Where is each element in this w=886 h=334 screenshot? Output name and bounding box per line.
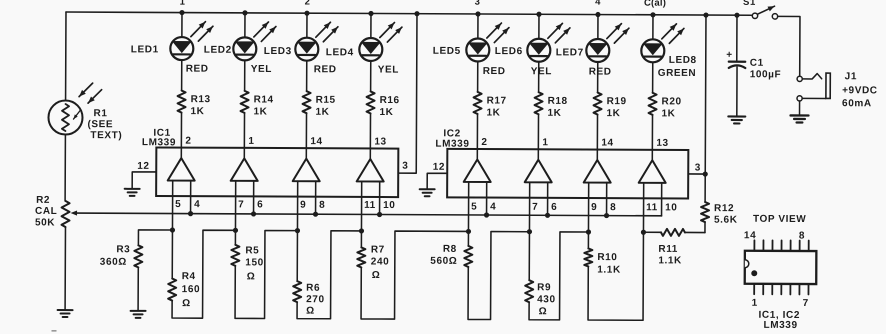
svg-text:14: 14	[310, 136, 322, 147]
LED 2 (YEL)	[204, 22, 276, 75]
svg-text:Ω: Ω	[306, 306, 315, 317]
svg-text:Ω: Ω	[372, 270, 381, 281]
svg-text:8: 8	[610, 202, 616, 213]
potentiometer R2	[35, 195, 70, 229]
svg-text:9: 9	[300, 200, 306, 211]
svg-text:R13: R13	[191, 94, 211, 105]
svg-text:RED: RED	[314, 64, 337, 75]
resistor R12 5.6K	[701, 174, 738, 233]
resistor R16 1K	[366, 61, 399, 118]
svg-text:+9VDC: +9VDC	[842, 85, 878, 96]
node 4	[595, 0, 601, 8]
svg-text:5: 5	[471, 201, 477, 212]
wire R18 to comparator pin 1	[538, 114, 548, 160]
wire R16 to comparator pin 13	[370, 113, 387, 159]
svg-text:4: 4	[194, 199, 200, 210]
svg-text:C1: C1	[750, 58, 764, 69]
resistor R17 1K	[473, 61, 506, 118]
svg-text:R10: R10	[597, 252, 617, 263]
svg-text:J1: J1	[845, 71, 857, 82]
svg-text:Ω: Ω	[182, 298, 191, 309]
svg-text:RED: RED	[186, 64, 209, 75]
svg-text:LED6: LED6	[495, 46, 523, 57]
svg-text:7: 7	[803, 298, 809, 309]
resistor R7 240ohm	[357, 231, 468, 320]
wire +V top rail	[66, 12, 752, 15]
svg-text:5.6K: 5.6K	[714, 215, 738, 226]
svg-text:GREEN: GREEN	[658, 68, 697, 79]
svg-text:R6: R6	[306, 283, 320, 294]
wire R1 to R2	[64, 135, 66, 201]
ground at IC1 pin 12	[125, 161, 157, 196]
svg-text:LED4: LED4	[326, 47, 354, 58]
wire R20 to comparator pin 13	[652, 115, 669, 161]
svg-text:150: 150	[245, 257, 264, 268]
svg-text:8: 8	[319, 200, 325, 211]
wire R19 to comparator pin 14	[597, 115, 614, 161]
svg-text:R4: R4	[182, 271, 196, 282]
resistor R9 430ohm	[525, 232, 588, 320]
comparator IC1 triangle c	[292, 159, 325, 231]
DIP-14 package top view LM339	[743, 214, 816, 331]
svg-text:13: 13	[656, 138, 668, 149]
svg-text:2: 2	[481, 137, 487, 148]
node 3	[475, 0, 481, 8]
svg-text:13: 13	[374, 136, 386, 147]
ground below R2	[58, 310, 73, 317]
svg-text:1.1K: 1.1K	[658, 255, 682, 266]
svg-text:1: 1	[542, 137, 548, 148]
svg-text:CAL: CAL	[35, 206, 57, 217]
svg-text:Ω: Ω	[247, 271, 256, 282]
resistor R10 1.1K	[584, 232, 643, 320]
svg-text:R14: R14	[254, 94, 274, 105]
svg-text:LED2: LED2	[204, 45, 232, 56]
ground below J1	[790, 115, 808, 122]
svg-text:1: 1	[180, 0, 186, 8]
svg-text:R16: R16	[380, 95, 400, 106]
svg-text:60mA: 60mA	[842, 98, 872, 109]
svg-text:R3: R3	[116, 244, 130, 255]
resistor R3 360ohm	[100, 230, 173, 311]
wire rail to LED3	[306, 13, 308, 37]
svg-text:14: 14	[744, 230, 756, 241]
svg-text:1K: 1K	[547, 108, 561, 119]
svg-text:100µF: 100µF	[750, 69, 782, 80]
svg-text:12: 12	[433, 162, 445, 173]
svg-text:270: 270	[306, 294, 325, 305]
resistor R19 1K	[593, 62, 626, 119]
svg-text:360Ω: 360Ω	[100, 257, 127, 268]
resistor R13 1K	[177, 60, 210, 117]
svg-text:R1: R1	[93, 108, 107, 119]
comparator IC2 triangle b	[524, 160, 557, 232]
svg-text:Ω: Ω	[539, 306, 548, 317]
comparator IC1 triangle d	[356, 159, 395, 231]
svg-text:R5: R5	[245, 245, 259, 256]
svg-text:R19: R19	[607, 96, 627, 107]
wire rail to LED4	[370, 13, 372, 37]
svg-text:C(al): C(al)	[644, 0, 666, 9]
svg-text:LED1: LED1	[131, 44, 159, 55]
svg-text:10: 10	[383, 200, 395, 211]
svg-text:560Ω: 560Ω	[430, 256, 457, 267]
svg-text:R15: R15	[316, 95, 336, 106]
svg-text:4: 4	[595, 0, 601, 8]
ground below R3	[131, 311, 146, 318]
svg-text:YEL: YEL	[251, 64, 272, 75]
svg-text:11: 11	[364, 200, 376, 211]
wire S1 to J1	[777, 16, 800, 76]
svg-text:1: 1	[752, 298, 758, 309]
resistor R6 270ohm	[293, 231, 361, 319]
svg-text:10: 10	[665, 202, 677, 213]
svg-text:3: 3	[475, 0, 481, 8]
svg-text:LED8: LED8	[669, 55, 697, 66]
LED 8 (GREEN)	[641, 24, 697, 79]
capacitor C1 100uF	[726, 15, 782, 116]
svg-text:RED: RED	[589, 66, 612, 77]
svg-text:R2: R2	[36, 195, 50, 206]
resistor R8 560ohm	[430, 231, 529, 319]
svg-text:LM339: LM339	[763, 320, 797, 331]
svg-text:R7: R7	[371, 244, 385, 255]
svg-text:1K: 1K	[606, 108, 620, 119]
svg-text:1K: 1K	[190, 106, 204, 117]
comparator IC2 triangle d	[638, 160, 677, 232]
wire rail to R1	[65, 12, 67, 100]
svg-text:R12: R12	[714, 203, 734, 214]
svg-text:6: 6	[551, 202, 557, 213]
ground at IC2 pin 12	[420, 162, 448, 197]
svg-text:7: 7	[238, 199, 244, 210]
svg-text:(SEE: (SEE	[87, 119, 113, 130]
svg-text:1K: 1K	[661, 108, 675, 119]
svg-text:R8: R8	[443, 244, 457, 255]
node 2	[305, 0, 311, 8]
svg-text:LED3: LED3	[264, 46, 292, 57]
svg-text:1K: 1K	[253, 106, 267, 117]
LED 5 (RED)	[433, 23, 509, 77]
op-amp U IC2 LM339 body	[435, 128, 688, 198]
svg-text:RED: RED	[483, 66, 506, 77]
svg-text:2: 2	[185, 136, 191, 147]
wire rail to LED7	[597, 15, 599, 39]
wire rail to LED6	[538, 14, 540, 38]
svg-text:50K: 50K	[35, 217, 55, 228]
svg-text:S1: S1	[743, 0, 756, 8]
wire R14 to comparator pin 1	[244, 113, 254, 159]
svg-text:LED5: LED5	[433, 46, 461, 57]
wire R15 to comparator pin 14	[306, 113, 323, 159]
svg-text:LED7: LED7	[556, 47, 584, 58]
ground below C1	[728, 116, 745, 123]
svg-text:R11: R11	[658, 244, 678, 255]
svg-text:YEL: YEL	[378, 64, 399, 75]
svg-text:3: 3	[402, 161, 408, 172]
resistor R5 150ohm	[231, 230, 297, 318]
svg-text:2: 2	[305, 0, 311, 8]
svg-text:5: 5	[175, 199, 181, 210]
svg-text:R17: R17	[487, 96, 507, 107]
svg-text:7: 7	[532, 202, 538, 213]
wire rail to LED2	[244, 13, 246, 37]
junction dots on tap bus	[170, 227, 646, 234]
svg-text:1K: 1K	[315, 107, 329, 118]
wire R2 to ground	[64, 227, 66, 309]
switch S1	[743, 0, 778, 19]
svg-text:LM339: LM339	[142, 137, 176, 148]
svg-text:1: 1	[248, 136, 254, 147]
wire rail to LED5	[477, 14, 479, 38]
node C(al)	[644, 0, 666, 9]
svg-text:1.1K: 1.1K	[597, 265, 621, 276]
comparator IC2 triangle a	[463, 159, 496, 231]
wire rail to LED8	[652, 15, 654, 39]
svg-text:1K: 1K	[486, 108, 500, 119]
svg-text:TOP VIEW: TOP VIEW	[753, 214, 806, 225]
photocell R1	[48, 83, 122, 141]
resistor R4 160ohm	[168, 230, 235, 318]
LED 4 (YEL)	[326, 22, 402, 75]
wire IC2 pin 3 to +V rail	[688, 15, 708, 177]
svg-text:3: 3	[695, 162, 701, 173]
comparator IC1 triangle a	[167, 158, 200, 230]
svg-text:11: 11	[646, 202, 658, 213]
resistor R20 1K	[648, 62, 681, 119]
svg-text:LM339: LM339	[435, 139, 469, 150]
svg-text:1K: 1K	[379, 107, 393, 118]
resistor R18 1K	[534, 62, 567, 119]
svg-text:160: 160	[182, 284, 201, 295]
junction dots on +V rail	[179, 10, 739, 18]
svg-text:240: 240	[371, 256, 390, 267]
resistor R11 1.1K	[643, 229, 705, 267]
op-amp U IC1 LM339 body	[142, 128, 399, 197]
resistor R14 1K	[240, 60, 273, 117]
comparator IC2 triangle c	[583, 160, 616, 232]
wire rail to LED1	[181, 13, 183, 37]
resistor R15 1K	[302, 61, 335, 118]
node 1	[180, 0, 186, 8]
LED 6 (YEL)	[495, 23, 570, 77]
LED 1 (RED)	[131, 21, 213, 74]
svg-text:12: 12	[137, 161, 149, 172]
svg-text:YEL: YEL	[531, 66, 552, 77]
svg-text:9: 9	[591, 202, 597, 213]
scan speck	[51, 330, 56, 332]
svg-text:R9: R9	[537, 282, 551, 293]
LED 7 (RED)	[556, 23, 629, 77]
jack J1 +9VDC 60mA	[797, 71, 878, 116]
wire R13 to comparator pin 2	[181, 113, 191, 159]
svg-text:14: 14	[601, 138, 613, 149]
svg-text:R18: R18	[548, 96, 568, 107]
svg-text:430: 430	[537, 294, 556, 305]
svg-text:R20: R20	[662, 96, 682, 107]
svg-text:+: +	[726, 50, 733, 61]
wire inverting-input bus to R2 wiper	[71, 210, 662, 218]
comparator IC1 triangle b	[230, 158, 263, 230]
svg-text:4: 4	[490, 202, 496, 213]
svg-text:6: 6	[257, 199, 263, 210]
wire R17 to comparator pin 2	[477, 114, 487, 160]
LED 3 (RED)	[264, 22, 338, 75]
wire IC1 pin 3 to +V rail	[398, 14, 417, 174]
svg-text:8: 8	[799, 230, 805, 241]
svg-text:TEXT): TEXT)	[90, 130, 122, 141]
